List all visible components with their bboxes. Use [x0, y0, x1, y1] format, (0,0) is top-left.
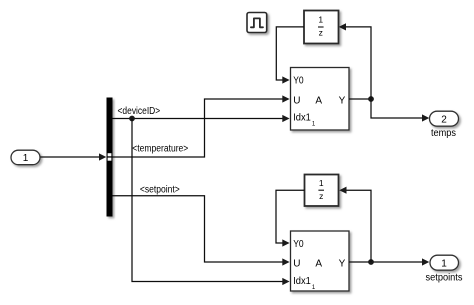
svg-text:1: 1	[318, 15, 323, 25]
svg-text:A: A	[315, 259, 322, 270]
input port In1	[11, 150, 40, 165]
wire setpoint to bottom U	[113, 196, 283, 262]
svg-text:<deviceID>: <deviceID>	[118, 106, 161, 117]
arrow into outport setpoints	[422, 258, 429, 265]
wire A1 Y out	[349, 98, 371, 100]
assignment block A1 (top)	[291, 68, 350, 131]
svg-text:U: U	[293, 95, 300, 106]
pulse generator icon	[247, 13, 267, 33]
bus selector input port icon	[108, 153, 112, 156]
svg-text:Y: Y	[339, 259, 346, 270]
wire UD2 out to A2 Y0	[276, 190, 305, 243]
svg-text:2: 2	[441, 115, 447, 126]
wire In1 to bus selector	[41, 156, 101, 158]
svg-text:1: 1	[23, 153, 29, 164]
bus selector	[107, 98, 113, 217]
wire A2 Y out	[349, 261, 423, 263]
svg-text:Y0: Y0	[293, 239, 304, 250]
assignment block A2 (bottom)	[291, 231, 350, 291]
junction bottom	[368, 259, 374, 265]
svg-text:Y: Y	[339, 95, 346, 106]
svg-text:Y0: Y0	[293, 76, 304, 87]
feedback wire bottom to UD2	[346, 190, 371, 262]
unit delay UD2 (bottom)	[305, 175, 339, 207]
wire deviceID branch to bottom Idx1	[132, 119, 283, 282]
svg-text:1: 1	[441, 259, 447, 270]
svg-text:Idx1: Idx1	[293, 113, 311, 124]
svg-text:temps: temps	[431, 128, 456, 139]
unit delay UD1 (top)	[304, 11, 339, 44]
svg-text:setpoints: setpoints	[426, 272, 463, 283]
svg-text:1: 1	[319, 178, 324, 188]
svg-text:z: z	[319, 28, 323, 38]
output port temps	[430, 111, 459, 126]
svg-text:<setpoint>: <setpoint>	[140, 185, 180, 196]
svg-text:<temperature>: <temperature>	[132, 144, 188, 155]
output port setpoints	[430, 255, 459, 270]
svg-text:Idx1: Idx1	[293, 276, 311, 287]
svg-text:A: A	[315, 95, 322, 106]
feedback wire top to UD1	[346, 27, 372, 99]
wire deviceID to top Idx1	[113, 118, 283, 120]
junction deviceID	[129, 116, 135, 122]
wire UD1 out to A1 Y0	[276, 27, 304, 80]
svg-text:z: z	[319, 191, 323, 201]
wire temperature to top U	[113, 99, 283, 157]
wire to outport temps	[371, 99, 423, 118]
svg-text:U: U	[293, 259, 300, 270]
junction top	[368, 96, 374, 102]
